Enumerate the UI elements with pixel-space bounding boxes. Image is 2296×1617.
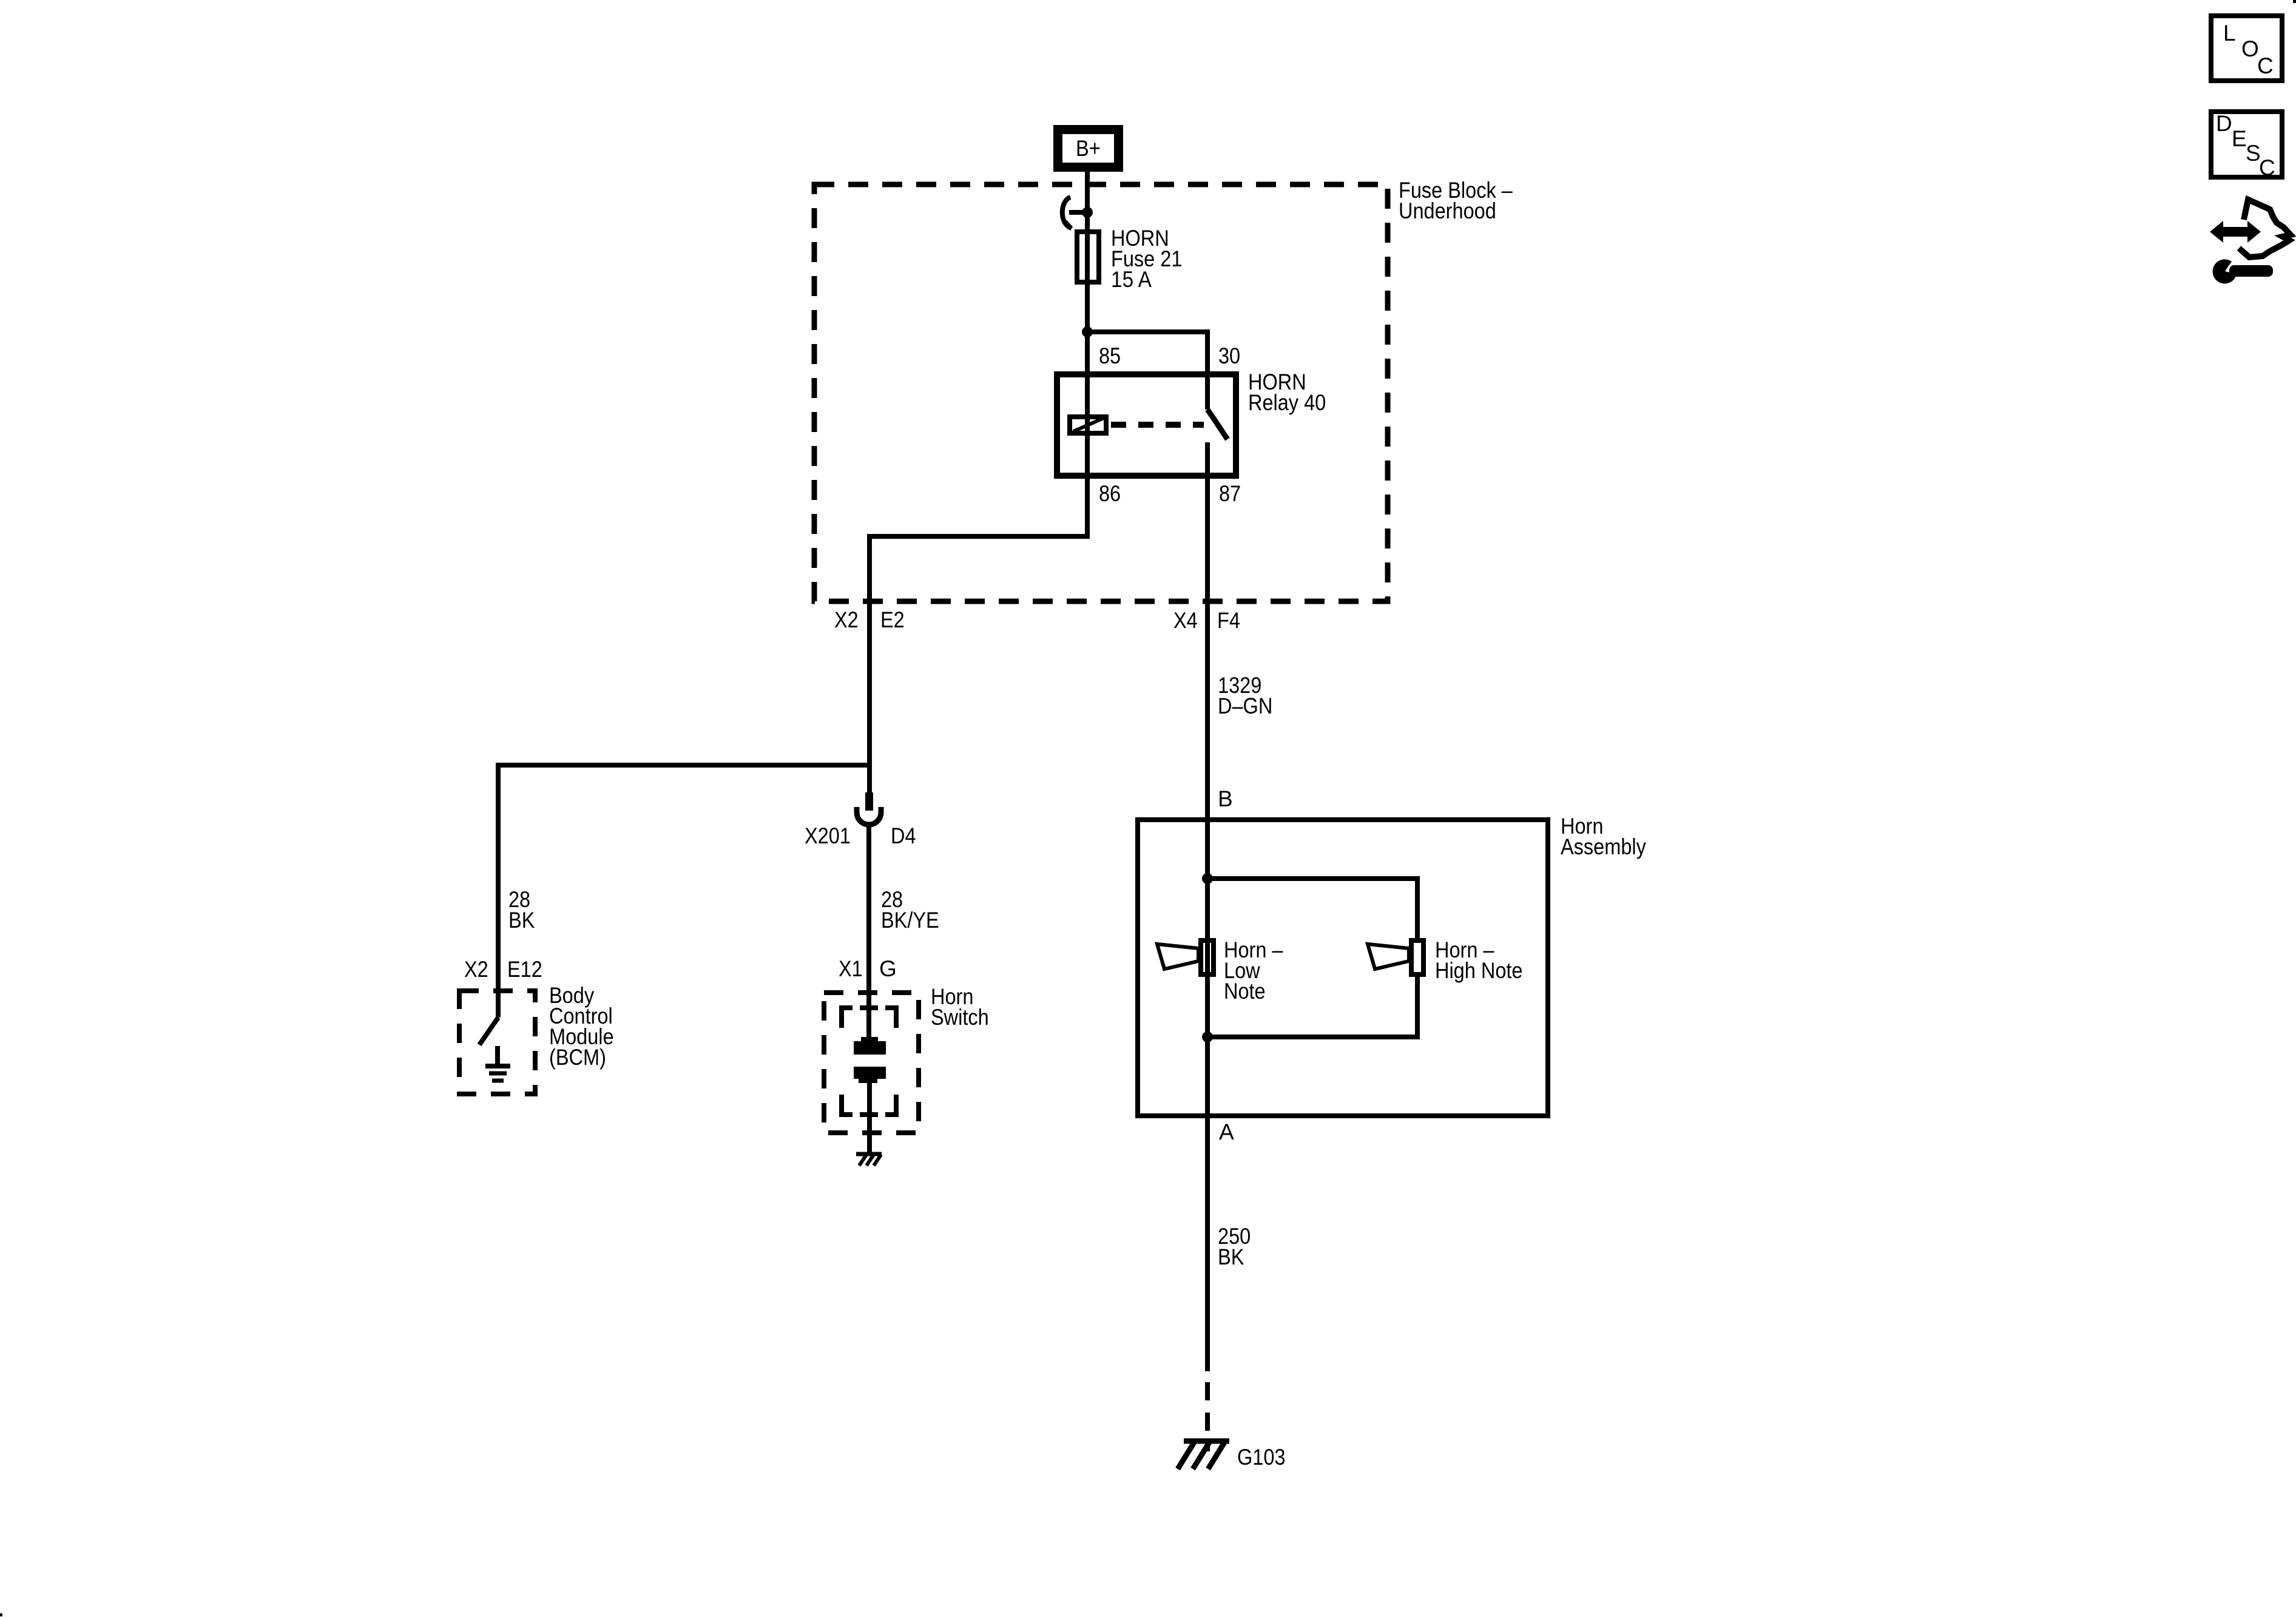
horn switch contact lower	[854, 1067, 886, 1083]
horn switch contact upper	[854, 1037, 886, 1055]
dashed wire to ground G103	[1205, 1382, 1210, 1451]
svg-text:X2: X2	[464, 957, 488, 982]
svg-text:G103: G103	[1237, 1445, 1286, 1470]
svg-text:30: 30	[1218, 343, 1240, 368]
label Horn - Low Note	[1224, 937, 1283, 1004]
body control module dashed box	[459, 991, 535, 1094]
connector label X201 | D4	[805, 823, 916, 848]
svg-text:E12: E12	[507, 957, 542, 982]
wire: relay pin 87 output down through horn assembly to ground lead	[1205, 442, 1210, 1371]
svg-text:D4: D4	[891, 823, 916, 848]
svg-text:BK: BK	[508, 908, 535, 933]
svg-text:Switch: Switch	[931, 1005, 989, 1030]
svg-text:High Note: High Note	[1435, 958, 1523, 983]
svg-text:86: 86	[1099, 481, 1121, 506]
junction dot upper	[1202, 873, 1213, 884]
svg-text:Assembly: Assembly	[1561, 834, 1646, 859]
svg-text:E: E	[2232, 126, 2247, 151]
svg-text:87: 87	[1219, 481, 1241, 506]
label HORN Relay 40	[1248, 370, 1326, 415]
svg-text:X4: X4	[1173, 608, 1198, 633]
fuse block underhood dashed outline	[814, 184, 1388, 601]
horn switch inner bracket box	[842, 1008, 896, 1115]
svg-text:Note: Note	[1224, 979, 1266, 1004]
ground G103 symbol	[1178, 1440, 1229, 1469]
harness repair icon connector outline	[2239, 200, 2291, 257]
svg-text:G: G	[879, 956, 897, 981]
relay HORN Relay 40 box	[1057, 374, 1236, 476]
in-line connector X201 blade	[865, 792, 873, 811]
wire: junction to relay pin 30	[1087, 332, 1207, 410]
horn assembly box	[1138, 820, 1548, 1116]
svg-text:A: A	[1219, 1119, 1234, 1144]
relay actuating dashed link	[1111, 422, 1204, 428]
relay coil	[1070, 417, 1106, 433]
svg-text:X2: X2	[834, 607, 859, 632]
DESC icon box	[2211, 111, 2282, 180]
junction dot lower	[1202, 1031, 1213, 1042]
svg-text:B+: B+	[1076, 136, 1101, 161]
svg-text:X201: X201	[805, 823, 851, 848]
wire label 28 BK (relay coil)	[881, 887, 939, 933]
harness repair icon double arrow	[2210, 221, 2261, 243]
wire label 28 BK (BCM)	[508, 887, 535, 933]
page corner mark bottom-left	[0, 1613, 2, 1616]
svg-text:85: 85	[1099, 343, 1121, 368]
label Horn Assembly	[1561, 814, 1646, 859]
connector label X1 | G	[839, 956, 897, 981]
wire: B+ feed through HORN fuse and relay coil pins 85/86 down to splice X201	[869, 172, 1087, 794]
horn switch chassis ground	[856, 1154, 882, 1166]
wire: parallel loop to high note horn	[1207, 879, 1417, 1037]
LOC icon box	[2211, 16, 2282, 81]
page corner mark top-right	[2293, 0, 2296, 3]
label Fuse Block - Underhood	[1399, 178, 1513, 223]
horn high note element	[1368, 940, 1423, 974]
battery terminal B+	[1058, 130, 1119, 167]
label Horn Switch	[931, 984, 989, 1030]
svg-text:15 A: 15 A	[1111, 267, 1152, 292]
svg-text:O: O	[2241, 36, 2259, 61]
svg-text:Underhood: Underhood	[1399, 198, 1496, 223]
svg-text:D–GN: D–GN	[1218, 694, 1272, 718]
svg-text:X1: X1	[839, 956, 863, 981]
svg-text:C: C	[2259, 155, 2275, 180]
label Body Control Module (BCM)	[549, 983, 614, 1070]
svg-text:F4: F4	[1217, 608, 1240, 633]
relay switch blade	[1207, 410, 1227, 439]
svg-text:D: D	[2216, 111, 2232, 136]
connector label X4 | F4	[1173, 608, 1240, 633]
wire: horn switch to chassis ground	[867, 1079, 872, 1153]
wire label 1329 D-GN	[1218, 673, 1272, 718]
battery tap clip	[1062, 197, 1093, 228]
svg-text:Relay 40: Relay 40	[1248, 390, 1326, 415]
BCM internal switch blade	[479, 1018, 498, 1045]
svg-text:C: C	[2257, 53, 2274, 78]
svg-text:E2: E2	[880, 607, 905, 632]
horn switch outer dashed box	[824, 993, 919, 1133]
label Horn - High Note	[1435, 937, 1523, 983]
fuse HORN Fuse 21 15 A	[1077, 226, 1182, 292]
connector label X2 | E12	[464, 957, 542, 982]
horn low note element	[1157, 940, 1214, 974]
wire label 250 BK	[1218, 1224, 1251, 1269]
harness repair icon wrench	[2213, 259, 2273, 283]
svg-text:(BCM): (BCM)	[549, 1045, 606, 1070]
connector label X2 | E2	[834, 607, 905, 632]
splice junction dot below fuse	[1082, 326, 1093, 337]
svg-text:L: L	[2223, 21, 2236, 46]
wire: splice to body control module	[498, 765, 869, 1018]
in-line connector X201 cup	[857, 807, 881, 825]
BCM internal ground	[485, 1046, 510, 1081]
svg-text:S: S	[2246, 141, 2261, 166]
svg-text:BK/YE: BK/YE	[881, 908, 939, 933]
svg-text:B: B	[1218, 786, 1233, 811]
svg-text:BK: BK	[1218, 1244, 1244, 1269]
wire: X201 to horn switch	[866, 826, 871, 1041]
